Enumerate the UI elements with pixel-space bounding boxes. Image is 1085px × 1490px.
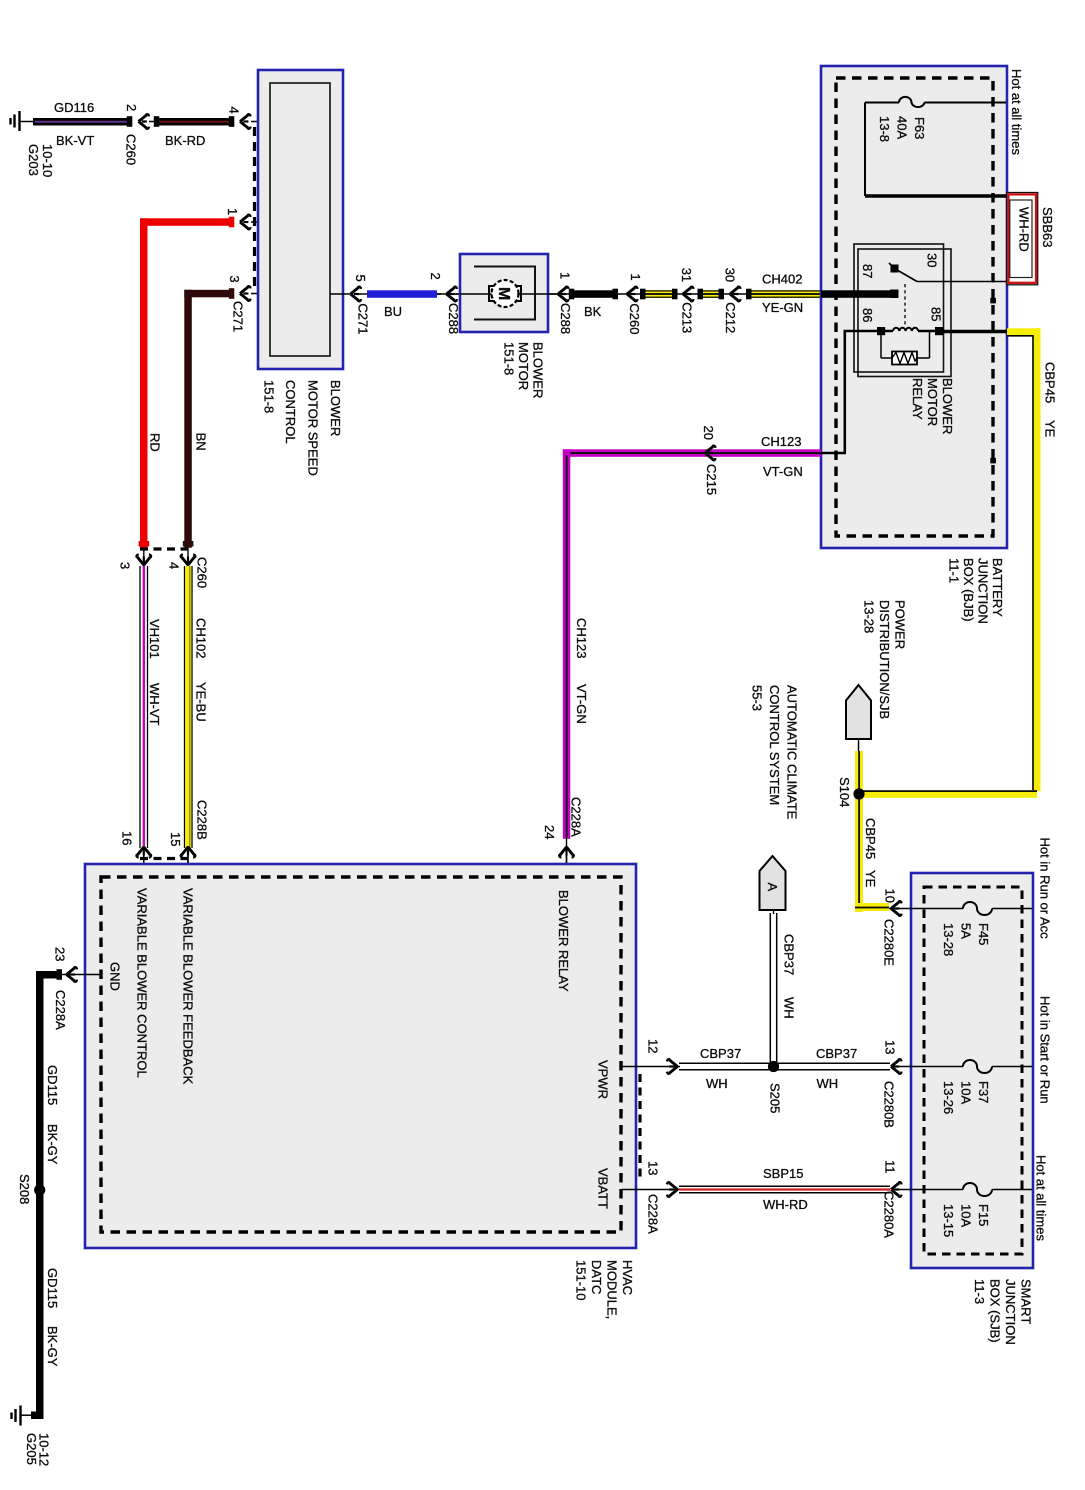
wire end caps xyxy=(57,116,752,980)
svg-text:10: 10 xyxy=(883,889,898,903)
svg-text:30: 30 xyxy=(925,253,940,267)
svg-text:MOTOR: MOTOR xyxy=(925,378,940,426)
junction mark on BJB dashed border upper xyxy=(990,298,996,304)
svg-text:BATTERY: BATTERY xyxy=(990,558,1005,617)
svg-text:BK-GY: BK-GY xyxy=(45,1124,60,1165)
svg-text:C2280E: C2280E xyxy=(882,919,897,966)
svg-text:85: 85 xyxy=(929,307,944,321)
wire GD115 BK-GY upper xyxy=(36,971,62,1191)
svg-text:BU: BU xyxy=(384,304,402,319)
svg-text:1: 1 xyxy=(225,208,240,215)
pin 15 connector arrow up xyxy=(181,847,196,858)
blower motor speed control inner rect xyxy=(270,83,330,356)
svg-text:55-3: 55-3 xyxy=(750,685,765,711)
fuse F15 line xyxy=(891,1183,1032,1196)
svg-text:4: 4 xyxy=(227,107,242,114)
wire CBP37 WH left segment xyxy=(679,1063,890,1070)
svg-text:3: 3 xyxy=(227,275,242,282)
svg-text:24: 24 xyxy=(542,825,557,839)
svg-text:BK-GY: BK-GY xyxy=(45,1326,60,1367)
svg-text:CONTROL: CONTROL xyxy=(283,380,298,444)
wire CH123 VT-GN xyxy=(563,449,824,839)
pin 16 connector arrow up xyxy=(137,847,152,858)
svg-text:GD115: GD115 xyxy=(45,1065,60,1105)
svg-text:C213: C213 xyxy=(680,302,695,333)
connector C228A dashed link right xyxy=(638,1074,641,1182)
svg-text:C260: C260 xyxy=(627,303,642,334)
pin 4 connector arrow xyxy=(240,114,251,129)
svg-text:10A: 10A xyxy=(959,1204,974,1227)
svg-text:31: 31 xyxy=(679,268,694,282)
SBB63 WH-RD box xyxy=(1007,193,1038,285)
svg-text:C271: C271 xyxy=(356,303,371,334)
pin 24 connector arrow up xyxy=(559,847,574,858)
svg-text:13-28: 13-28 xyxy=(862,600,877,633)
svg-text:BOX (SJB): BOX (SJB) xyxy=(988,1279,1003,1343)
svg-text:13-15: 13-15 xyxy=(941,1204,956,1237)
svg-text:WH: WH xyxy=(817,1076,839,1091)
svg-text:GND: GND xyxy=(108,962,123,991)
svg-text:YE: YE xyxy=(863,870,878,888)
svg-text:151-8: 151-8 xyxy=(262,380,277,413)
pin16 stub xyxy=(143,855,145,878)
SJB inner dashed border xyxy=(924,887,1022,1254)
HVAC inner dashed border xyxy=(101,877,621,1232)
svg-text:Hot at all times: Hot at all times xyxy=(1009,69,1024,155)
svg-text:13-28: 13-28 xyxy=(941,923,956,956)
fuse F63 xyxy=(865,97,1006,196)
relay switch contact square xyxy=(891,265,899,273)
BJB inner dashed border xyxy=(836,78,993,536)
wire line through C228B connectors xyxy=(143,846,145,864)
svg-text:C260: C260 xyxy=(124,134,139,165)
svg-text:VH101: VH101 xyxy=(147,619,162,659)
connector C260 dashed link xyxy=(140,547,188,550)
wire BK-RD xyxy=(149,118,234,126)
connector C215 arrow xyxy=(705,446,716,461)
svg-text:5A: 5A xyxy=(959,923,974,939)
svg-text:A: A xyxy=(765,883,780,892)
wire BU xyxy=(358,290,441,298)
svg-text:4: 4 xyxy=(167,562,182,569)
svg-text:2: 2 xyxy=(428,273,443,280)
svg-text:POWER: POWER xyxy=(893,600,908,649)
wire CBP45 YE lower leg xyxy=(855,794,889,912)
stub below arrow xyxy=(858,739,860,752)
svg-text:13-26: 13-26 xyxy=(941,1081,956,1114)
svg-text:YE-GN: YE-GN xyxy=(762,300,803,315)
wire pin1 stub xyxy=(251,221,270,223)
relay switch blade xyxy=(889,263,917,282)
off-page arrow power distribution xyxy=(846,685,871,739)
svg-text:SBB63: SBB63 xyxy=(1040,207,1055,247)
svg-text:BK-RD: BK-RD xyxy=(165,133,205,148)
svg-text:VT-GN: VT-GN xyxy=(763,464,803,479)
connector C260 arrow xyxy=(139,114,150,129)
svg-text:13: 13 xyxy=(646,1161,661,1175)
pin 13 stub xyxy=(622,1189,680,1191)
svg-text:S205: S205 xyxy=(768,1083,783,1113)
svg-text:WH: WH xyxy=(782,997,797,1019)
svg-text:Hot in Run or Acc: Hot in Run or Acc xyxy=(1038,838,1053,940)
wire RD from pin 1 xyxy=(140,218,234,548)
label CBP45 YE lower xyxy=(863,818,878,888)
label F45 5A 13-28 xyxy=(941,923,991,956)
svg-text:CH123: CH123 xyxy=(574,618,589,658)
label BLOWER MOTOR SPEED CONTROL 151-8 xyxy=(262,380,344,476)
label POWER DISTRIBUTION/SJB 13-28 xyxy=(862,600,908,719)
connector C288 arrow xyxy=(447,287,458,302)
svg-text:WH-RD: WH-RD xyxy=(1017,207,1032,252)
svg-text:BLOWER: BLOWER xyxy=(531,342,546,398)
pin 12 connector arrow right xyxy=(667,1059,678,1074)
wire WH-VT vertical xyxy=(140,566,148,848)
smart junction box (SJB) xyxy=(911,873,1033,1268)
svg-text:MODULE,: MODULE, xyxy=(605,1260,620,1319)
svg-text:BN: BN xyxy=(194,433,209,451)
svg-text:C2280A: C2280A xyxy=(882,1191,897,1238)
svg-text:F63: F63 xyxy=(912,117,927,139)
pin 23 connector arrow xyxy=(67,967,78,982)
svg-text:BK-VT: BK-VT xyxy=(56,133,94,148)
wire 85 to BJB edge xyxy=(943,330,1007,333)
label BATTERY JUNCTION BOX (BJB) 11-1 xyxy=(947,558,1006,624)
svg-text:YE-BU: YE-BU xyxy=(194,682,209,722)
svg-text:RELAY: RELAY xyxy=(910,378,925,420)
svg-text:F15: F15 xyxy=(976,1204,991,1226)
svg-text:2: 2 xyxy=(124,104,139,111)
blower motor relay offset box xyxy=(858,249,951,377)
svg-text:CBP45: CBP45 xyxy=(1043,362,1058,403)
svg-text:SMART: SMART xyxy=(1019,1279,1034,1324)
connector C212 arrow xyxy=(730,287,741,302)
svg-text:87: 87 xyxy=(860,264,875,278)
wire YE-GN segment 1 xyxy=(642,290,677,298)
fuse F37 line xyxy=(891,1060,1032,1073)
svg-text:GD115: GD115 xyxy=(45,1268,60,1308)
HVAC module box xyxy=(85,864,636,1248)
svg-text:CH402: CH402 xyxy=(762,272,802,287)
pin 12 stub xyxy=(622,1066,680,1068)
wire BN from pin 3 xyxy=(184,290,233,548)
pin 23 stub xyxy=(62,974,100,976)
svg-text:G203: G203 xyxy=(26,144,41,176)
svg-text:VARIABLE BLOWER FEEDBACK: VARIABLE BLOWER FEEDBACK xyxy=(181,888,196,1085)
svg-text:C288: C288 xyxy=(558,303,573,334)
svg-text:BOX (BJB): BOX (BJB) xyxy=(961,558,976,622)
svg-text:CH102: CH102 xyxy=(194,618,209,658)
pin15 stub xyxy=(187,855,189,878)
svg-text:CBP37: CBP37 xyxy=(816,1046,857,1061)
wire line through top C260 connectors xyxy=(143,548,145,566)
label F15 10A 13-15 xyxy=(941,1204,991,1237)
wire YE-GN segment 2 xyxy=(699,290,722,298)
wire CBP45 YE L-shape xyxy=(1007,328,1041,791)
label AUTOMATIC CLIMATE CONTROL SYSTEM 55-3 xyxy=(750,685,800,820)
svg-text:40A: 40A xyxy=(895,116,910,139)
svg-text:3: 3 xyxy=(118,562,133,569)
svg-text:JUNCTION: JUNCTION xyxy=(976,558,991,624)
svg-text:YE: YE xyxy=(1043,420,1058,438)
svg-text:23: 23 xyxy=(53,947,68,961)
wire SBP15 WH-RD xyxy=(679,1186,890,1193)
svg-text:BLOWER: BLOWER xyxy=(940,378,955,434)
svg-text:13-8: 13-8 xyxy=(877,116,892,142)
svg-text:86: 86 xyxy=(860,308,875,322)
svg-text:151-8: 151-8 xyxy=(502,342,517,375)
wire pin4 stub xyxy=(251,121,270,123)
blower motor relay outer box xyxy=(854,244,944,372)
fuse F45 line xyxy=(889,902,1032,915)
svg-text:12: 12 xyxy=(646,1039,661,1053)
wire relay 30 to SBB63 xyxy=(917,281,1007,283)
wire 86 down inside BJB xyxy=(821,330,846,453)
svg-text:1: 1 xyxy=(628,273,643,280)
svg-text:16: 16 xyxy=(120,831,135,845)
label BLOWER MOTOR 151-8 xyxy=(502,342,546,398)
svg-text:C215: C215 xyxy=(704,464,719,495)
splice S104 xyxy=(853,788,864,799)
svg-text:C212: C212 xyxy=(723,302,738,333)
wire SBB63 bus xyxy=(865,194,1007,198)
motor M circle xyxy=(492,280,519,307)
svg-text:C271: C271 xyxy=(231,301,246,332)
label BLOWER MOTOR RELAY xyxy=(910,378,955,434)
svg-text:151-10: 151-10 xyxy=(574,1260,589,1300)
label F63 40A 13-8 xyxy=(877,116,927,142)
wire CBP45 YE S104 to right riser xyxy=(859,790,1037,798)
svg-text:M: M xyxy=(495,287,512,300)
svg-text:AUTOMATIC CLIMATE: AUTOMATIC CLIMATE xyxy=(785,685,800,820)
svg-text:VPWR: VPWR xyxy=(596,1060,611,1099)
pin 5 stub wire xyxy=(330,293,350,295)
svg-text:WH-VT: WH-VT xyxy=(147,683,162,726)
label HVAC MODULE, DATC 151-10 xyxy=(574,1260,636,1319)
connector C271 dashed line xyxy=(253,127,256,287)
svg-text:30: 30 xyxy=(723,268,738,282)
wire row line motor chain xyxy=(437,293,893,295)
svg-text:10A: 10A xyxy=(959,1081,974,1104)
blower motor speed control box xyxy=(258,70,343,369)
svg-text:WH: WH xyxy=(706,1076,728,1091)
svg-text:HVAC: HVAC xyxy=(620,1260,635,1295)
svg-text:WH-RD: WH-RD xyxy=(763,1197,808,1212)
svg-text:F45: F45 xyxy=(976,923,991,945)
relay coil xyxy=(844,328,944,331)
connector C213 arrow xyxy=(683,287,694,302)
svg-text:15: 15 xyxy=(168,832,183,846)
svg-text:BLOWER: BLOWER xyxy=(328,380,343,436)
pin 13 connector arrow right xyxy=(667,1182,678,1197)
connector C260 arrow chain xyxy=(627,287,638,302)
svg-text:C228B: C228B xyxy=(195,800,210,840)
svg-text:C228A: C228A xyxy=(53,990,68,1030)
battery junction box (BJB) xyxy=(821,66,1007,548)
svg-text:CBP37: CBP37 xyxy=(782,934,797,975)
wire line through pin24 connector xyxy=(566,838,568,864)
svg-text:CONTROL SYSTEM: CONTROL SYSTEM xyxy=(767,685,782,805)
svg-text:Hot in Start or Run: Hot in Start or Run xyxy=(1038,996,1053,1104)
svg-text:C228A: C228A xyxy=(569,797,584,837)
wire BK xyxy=(571,290,617,298)
svg-text:JUNCTION: JUNCTION xyxy=(1003,1279,1018,1345)
svg-text:CBP37: CBP37 xyxy=(700,1046,741,1061)
svg-text:S104: S104 xyxy=(837,777,852,807)
relay 87 contact square xyxy=(890,290,899,299)
svg-text:MOTOR: MOTOR xyxy=(516,342,531,390)
wire 87 thick black into relay xyxy=(821,290,892,298)
label CBP45 YE right xyxy=(1043,362,1058,438)
svg-text:1: 1 xyxy=(558,272,573,279)
svg-text:BK: BK xyxy=(584,304,602,319)
svg-text:VT-GN: VT-GN xyxy=(574,684,589,724)
label G205 10-12 xyxy=(24,1433,52,1466)
svg-text:DATC: DATC xyxy=(589,1260,604,1294)
pin 3 connector arrow xyxy=(240,286,251,301)
svg-text:10-10: 10-10 xyxy=(40,144,55,177)
svg-text:10-12: 10-12 xyxy=(37,1433,52,1466)
svg-text:RD: RD xyxy=(147,433,162,452)
connector C228B dashed link xyxy=(140,857,188,860)
motor brush right xyxy=(515,286,521,301)
svg-text:11-3: 11-3 xyxy=(972,1279,987,1304)
wire stub into motor xyxy=(452,293,488,295)
svg-text:F37: F37 xyxy=(976,1081,991,1103)
motor right stub xyxy=(548,293,557,295)
svg-text:13: 13 xyxy=(883,1040,898,1054)
splice S205 xyxy=(768,1061,779,1072)
connector C2280A arrow xyxy=(891,1182,902,1197)
wire pin3 stub xyxy=(251,293,270,295)
motor brush left xyxy=(489,286,495,301)
svg-text:GD116: GD116 xyxy=(54,100,94,115)
wire YE-BU vertical xyxy=(185,566,193,848)
wire GD116 BK-VT xyxy=(33,118,132,126)
splice S208 xyxy=(34,1184,45,1195)
pin 1 connector arrow xyxy=(240,215,251,230)
pin 5 connector arrow xyxy=(351,287,362,302)
svg-text:C2280B: C2280B xyxy=(882,1081,897,1128)
wire GD115 BK-GY lower xyxy=(31,1190,44,1419)
svg-text:20: 20 xyxy=(701,426,716,440)
svg-text:Hot at all times: Hot at all times xyxy=(1034,1155,1049,1241)
blower motor inner bracket xyxy=(474,267,535,320)
motor wire through xyxy=(460,293,548,295)
svg-text:SBP15: SBP15 xyxy=(763,1166,803,1181)
label F37 10A 13-26 xyxy=(941,1081,991,1114)
pin 24 stub into HVAC xyxy=(566,855,568,878)
connector C2280E arrow xyxy=(891,901,902,916)
ground G203 xyxy=(11,111,35,131)
wire CBP37 WH vertical xyxy=(770,910,776,1062)
svg-text:DISTRIBUTION/SJB: DISTRIBUTION/SJB xyxy=(877,600,892,719)
svg-text:C228A: C228A xyxy=(646,1194,661,1234)
label CBP37 WH vertical xyxy=(782,934,797,1019)
pin 3 connector arrow down xyxy=(137,554,152,565)
blower motor box xyxy=(460,254,548,332)
relay resistor branch xyxy=(881,331,930,365)
svg-text:BLOWER RELAY: BLOWER RELAY xyxy=(556,890,571,992)
connector C2280B arrow xyxy=(891,1059,902,1074)
svg-text:5: 5 xyxy=(353,275,368,282)
junction mark on BJB dashed border lower xyxy=(990,458,996,464)
svg-text:VARIABLE BLOWER CONTROL: VARIABLE BLOWER CONTROL xyxy=(135,888,150,1078)
svg-text:C260: C260 xyxy=(195,557,210,588)
svg-text:MOTOR SPEED: MOTOR SPEED xyxy=(306,380,321,476)
svg-text:S208: S208 xyxy=(17,1174,32,1204)
svg-text:CBP45: CBP45 xyxy=(863,818,878,859)
pin 4 connector arrow down xyxy=(181,554,196,565)
svg-text:11: 11 xyxy=(883,1160,898,1174)
svg-text:VBATT: VBATT xyxy=(596,1168,611,1209)
relay coil junction dot left xyxy=(877,327,885,335)
connector C288 arrow right xyxy=(558,287,569,302)
wire CH402 YE-GN long xyxy=(748,290,822,298)
relay coil junction dot right xyxy=(935,327,943,335)
off-page arrow A xyxy=(760,856,786,910)
label SMART JUNCTION BOX (SJB) 11-3 xyxy=(972,1279,1034,1345)
ground G205 xyxy=(12,1406,34,1426)
svg-text:CH123: CH123 xyxy=(761,434,801,449)
wire CBP45 YE upper leg xyxy=(855,751,863,791)
svg-text:11-1: 11-1 xyxy=(947,558,962,583)
relay actuation dashed line xyxy=(904,284,906,327)
